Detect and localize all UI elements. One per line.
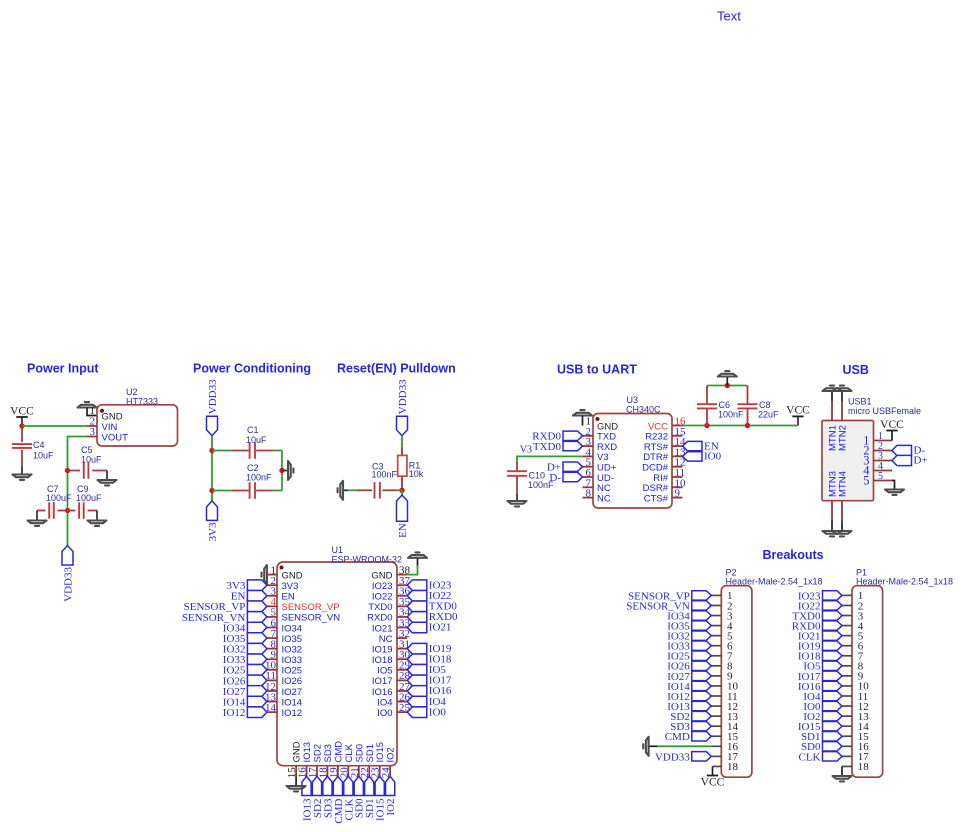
- wire P1 pin18 to ground: [841, 766, 843, 775]
- svg-text:D+: D+: [914, 455, 928, 467]
- ground below USB1 pin5: [885, 490, 904, 495]
- net flag IO26 (P2 pin 8): [692, 661, 712, 670]
- U3 pin 4 V3: [583, 455, 594, 457]
- wire MTN3 to ground: [831, 520, 833, 531]
- svg-text:GND: GND: [292, 741, 303, 762]
- U1 pin 9 IO33: [267, 658, 277, 660]
- junction right ground node: [279, 468, 284, 473]
- svg-text:100nF: 100nF: [246, 473, 272, 483]
- P1 pin 11: [842, 695, 852, 697]
- P2 pin 4: [711, 625, 721, 627]
- net flag IO13 (U1 pin 16): [302, 776, 311, 795]
- net flag IO17 (U1 pin 28): [407, 675, 427, 686]
- svg-text:100nF: 100nF: [372, 470, 398, 480]
- svg-text:VCC: VCC: [701, 776, 725, 788]
- P2 pin 3: [711, 615, 721, 617]
- wire C6/C8 top rail: [707, 385, 748, 387]
- U1 pin 29 IO5: [397, 669, 407, 671]
- U1 pin 6 IO34: [267, 627, 277, 629]
- svg-text:IO5: IO5: [377, 666, 392, 677]
- svg-text:C5: C5: [81, 445, 93, 455]
- svg-text:USB: USB: [843, 363, 869, 377]
- U1 pin 2 3V3: [267, 584, 277, 586]
- net flag SENSOR_VN (P2 pin 2): [692, 601, 712, 610]
- U1 pin 7 IO35: [267, 637, 277, 639]
- P1 pin 12: [842, 705, 852, 707]
- svg-text:C1: C1: [247, 425, 259, 435]
- wire VDD33 to R1: [401, 436, 403, 447]
- U1 pin 12 IO27: [267, 690, 277, 692]
- net flag RXD0 (P1 pin 4): [823, 621, 843, 630]
- U1 pin 3 EN: [267, 595, 277, 597]
- svg-text:VDD33: VDD33: [207, 379, 219, 414]
- svg-text:IO21: IO21: [372, 623, 393, 634]
- net flag IO4 (P1 pin 11): [823, 691, 843, 700]
- net flag IO19 (P1 pin 6): [823, 641, 843, 650]
- wire MTN4 to ground: [841, 520, 843, 531]
- ground below MTN4: [833, 531, 852, 536]
- U1 pin 26 IO4: [397, 701, 407, 703]
- net flag D+ (U3 UD+): [563, 462, 583, 471]
- U3 pin 12 DCD#: [672, 466, 683, 468]
- svg-text:IO0: IO0: [429, 706, 447, 718]
- ground above U3 pin 1: [573, 410, 592, 415]
- svg-text:RXD0: RXD0: [367, 613, 392, 624]
- P2 pin 13: [711, 715, 721, 717]
- U3 pin 5 UD+: [583, 466, 594, 468]
- USB1 pin 3: [874, 460, 893, 462]
- svg-text:IO13: IO13: [302, 742, 313, 763]
- net flag IO15 (U1 pin 23): [375, 776, 384, 795]
- svg-text:IO0: IO0: [377, 708, 392, 719]
- ground above U1 pin 38: [408, 552, 427, 557]
- net flag D+ (USB pin3): [892, 455, 912, 465]
- svg-text:CMD: CMD: [665, 731, 690, 743]
- U1 pin 25 IO0: [397, 711, 407, 713]
- svg-text:Text: Text: [717, 9, 741, 24]
- net flag IO4 (U1 pin 26): [407, 696, 427, 707]
- net flag IO12 (P2 pin 11): [692, 691, 712, 700]
- capacitor C2 100nF: [212, 490, 232, 492]
- ground below C7: [28, 521, 47, 526]
- wire U1 pin15 GND to ground: [295, 776, 297, 786]
- U1 pin 10 IO25: [267, 669, 277, 671]
- U3 pin 15 R232: [672, 435, 683, 437]
- svg-text:CTS#: CTS#: [644, 493, 669, 504]
- svg-text:GND: GND: [282, 570, 303, 581]
- ground left of C3: [338, 481, 343, 500]
- svg-text:C4: C4: [33, 440, 45, 450]
- svg-text:IO21: IO21: [429, 622, 452, 634]
- P1 pin 6: [842, 645, 852, 647]
- junction R1/C3/EN: [399, 488, 404, 493]
- P2 pin 18: [713, 765, 722, 767]
- svg-text:VCC: VCC: [10, 405, 34, 417]
- net flag 3V3: [207, 501, 218, 521]
- net flag CMD (U1 pin 19): [333, 776, 342, 795]
- P1 pin 4: [842, 625, 852, 627]
- svg-text:SD1: SD1: [365, 744, 376, 762]
- svg-text:5: 5: [863, 474, 869, 488]
- svg-text:IO26: IO26: [282, 676, 303, 687]
- svg-text:IO25: IO25: [282, 666, 303, 677]
- wire MTN2 to ground: [841, 391, 843, 401]
- svg-text:IO17: IO17: [372, 676, 393, 687]
- svg-text:IO0: IO0: [704, 451, 722, 463]
- net flag IO0 (P1 pin 12): [823, 701, 843, 710]
- capacitor C8 22uF: [747, 386, 749, 405]
- capacitor C9 100uF: [68, 510, 76, 512]
- ground left of U1 pin 1: [262, 565, 267, 584]
- ground above U2 pin 1: [78, 402, 97, 407]
- svg-text:SENSOR_VP: SENSOR_VP: [282, 602, 340, 613]
- net flag IO32 (P2 pin 5): [692, 631, 712, 640]
- junction ground/top rail: [725, 383, 730, 388]
- P1 pin 13: [842, 715, 852, 717]
- net flag IO2 (U1 pin 24): [386, 776, 395, 795]
- wire VDD33 down to C2: [211, 436, 213, 501]
- U1 pin 14 IO12: [267, 711, 277, 713]
- P1 pin 7: [842, 655, 852, 657]
- net flag IO16 (U1 pin 27): [407, 686, 427, 697]
- ground above MTN2: [833, 386, 852, 391]
- U1 pin 22 SD1: [368, 766, 370, 777]
- svg-text:Power Input: Power Input: [27, 362, 99, 376]
- wire MTN1 to ground: [831, 391, 833, 401]
- svg-text:TXD0: TXD0: [533, 441, 562, 453]
- svg-text:C6: C6: [719, 400, 731, 410]
- P2 pin 17: [711, 755, 721, 757]
- P1 pin 14: [842, 725, 852, 727]
- U3 pin 13 DTR#: [672, 455, 683, 457]
- junction C6 bottom: [704, 423, 709, 428]
- net flag IO33 (U1 pin 9): [247, 654, 267, 665]
- wire VCC to U2 VIN: [22, 425, 87, 427]
- U1 pin 28 IO17: [397, 679, 407, 681]
- svg-text:IO14: IO14: [282, 697, 303, 708]
- P2 pin 2: [711, 604, 721, 606]
- svg-text:USB1: USB1: [848, 397, 872, 407]
- net label VCC (power input): [16, 416, 27, 418]
- svg-text:IO4: IO4: [377, 697, 392, 708]
- svg-text:5: 5: [878, 471, 883, 482]
- svg-text:3: 3: [90, 426, 96, 438]
- svg-text:IO19: IO19: [372, 644, 393, 655]
- U1 pin 35 TXD0: [397, 605, 407, 607]
- U3 pin 2 TXD: [583, 435, 594, 437]
- P2 pin 7: [711, 655, 721, 657]
- capacitor C5 10uF: [68, 470, 81, 472]
- U1 pin 38 GND: [397, 574, 407, 576]
- net flag SD1 (P1 pin 15): [823, 732, 843, 741]
- USB1 pin MTN3: [831, 501, 833, 521]
- svg-text:22uF: 22uF: [758, 409, 779, 419]
- net flag SENSOR_VN (U1 pin 5): [247, 612, 267, 623]
- svg-text:IO12: IO12: [282, 708, 303, 719]
- U1 pin 16 IO13: [306, 766, 308, 777]
- net flag IO22 (P1 pin 2): [823, 601, 843, 610]
- net flag IO5 (U1 pin 29): [407, 665, 427, 676]
- net flag IO25 (P2 pin 7): [692, 651, 712, 660]
- svg-text:CH340C: CH340C: [626, 404, 661, 414]
- svg-text:IO2: IO2: [385, 799, 397, 816]
- net flag IO2 (P1 pin 13): [823, 711, 843, 720]
- svg-text:GND: GND: [102, 412, 123, 423]
- U1 pin 11 IO26: [267, 679, 277, 681]
- net flag CMD (P2 pin 15): [692, 732, 712, 741]
- U1 pin 37 IO23: [397, 584, 407, 586]
- USB1 pin 5: [874, 480, 893, 482]
- svg-text:IO33: IO33: [282, 655, 303, 666]
- capacitor C7 100uF: [58, 510, 68, 512]
- capacitor C10 100nF: [516, 462, 518, 471]
- U3 pin 16 VCC: [672, 425, 683, 427]
- U1 pin 8 IO32: [267, 648, 277, 650]
- wire top rail to ground: [726, 377, 728, 386]
- ground below C5: [98, 480, 117, 485]
- net flag IO33 (P2 pin 6): [692, 641, 712, 650]
- ground (power conditioning): [288, 461, 293, 480]
- P1 pin 2: [842, 604, 852, 606]
- net flag IO12 (U1 pin 14): [247, 707, 267, 718]
- P1 pin 1: [842, 594, 852, 596]
- junction VCC/C4: [19, 423, 24, 428]
- P1 pin 10: [842, 685, 852, 687]
- net flag IO35 (P2 pin 4): [692, 621, 712, 630]
- svg-text:3V3: 3V3: [207, 522, 219, 541]
- net flag IO14 (U1 pin 13): [247, 696, 267, 707]
- net flag 3V3 (U1 pin 2): [247, 580, 267, 591]
- P2 pin 12: [711, 705, 721, 707]
- svg-text:VDD33: VDD33: [62, 567, 74, 602]
- USB1 pin 4: [874, 470, 893, 472]
- connector USB1 micro USBFemale body: [822, 421, 874, 501]
- svg-text:IO2: IO2: [386, 747, 397, 762]
- U1 pin 36 IO22: [397, 595, 407, 597]
- svg-text:IO32: IO32: [282, 644, 303, 655]
- net flag VDD33 (power conditioning): [207, 416, 218, 436]
- U1 pin 32 NC: [397, 637, 407, 639]
- net flag SD3 (U1 pin 18): [323, 776, 332, 795]
- P2 pin 11: [711, 695, 721, 697]
- svg-text:IO27: IO27: [282, 687, 303, 698]
- P2 pin 9: [711, 675, 721, 677]
- svg-text:IO12: IO12: [223, 707, 246, 719]
- svg-text:IO15: IO15: [375, 742, 386, 763]
- net flag IO32 (U1 pin 8): [247, 643, 267, 654]
- net flag SD1 (U1 pin 22): [365, 776, 374, 795]
- P2 pin 15: [711, 735, 721, 737]
- P2 pin 14: [711, 725, 721, 727]
- net flag VDD33 (P2 pin17): [692, 752, 712, 761]
- svg-text:MTN4: MTN4: [838, 471, 849, 497]
- U1 pin 30 IO18: [397, 658, 407, 660]
- svg-text:8: 8: [586, 488, 592, 500]
- U1 pin 4 SENSOR_VP: [267, 605, 277, 607]
- net flag IO23 (U1 pin 37): [407, 580, 427, 591]
- net flag IO21 (U1 pin 33): [407, 622, 427, 633]
- wire right side of C1/C2: [281, 451, 283, 491]
- ground below MTN3: [823, 531, 842, 536]
- svg-text:VDD33: VDD33: [655, 751, 690, 763]
- svg-text:100uF: 100uF: [46, 493, 72, 503]
- svg-text:C10: C10: [529, 471, 546, 481]
- resistor R1 10k: [401, 447, 403, 455]
- svg-text:ESP-WROOM-32: ESP-WROOM-32: [332, 555, 403, 565]
- svg-text:C8: C8: [759, 400, 771, 410]
- wire USB1 pin5 to ground: [892, 481, 895, 490]
- svg-text:SD2: SD2: [313, 744, 324, 762]
- wire U3 pin1 GND to ground: [582, 416, 584, 426]
- svg-text:18: 18: [858, 761, 870, 773]
- net flag RXD0 (U1 pin 34): [407, 612, 427, 623]
- svg-text:IO35: IO35: [282, 634, 303, 645]
- svg-text:10uF: 10uF: [33, 451, 54, 461]
- U3 pin 7 NC: [583, 486, 594, 488]
- wire U3 VCC rail: [683, 425, 798, 427]
- junction VOUT/C5: [65, 468, 70, 473]
- net flag SENSOR_VP (U1 pin 4): [247, 601, 267, 612]
- svg-text:EN: EN: [282, 592, 295, 603]
- svg-text:CLK: CLK: [799, 751, 821, 763]
- svg-text:Reset(EN) Pulldown: Reset(EN) Pulldown: [337, 362, 456, 376]
- U2 pin 2 VIN: [87, 425, 97, 427]
- svg-text:micro USBFemale: micro USBFemale: [848, 406, 921, 416]
- P2 pin 10: [711, 685, 721, 687]
- svg-text:EN: EN: [397, 523, 409, 538]
- U3 pin 10 DSR#: [672, 486, 683, 488]
- capacitor C6 100nF: [706, 386, 708, 405]
- ground above MTN1: [823, 386, 842, 391]
- net flag VDD33 (reset pulldown): [397, 416, 408, 436]
- svg-text:VIN: VIN: [102, 422, 118, 433]
- net flag IO0 (U3 DTR#): [683, 452, 703, 461]
- U3 pin 14 RTS#: [672, 445, 683, 447]
- net flag IO0 (U1 pin 25): [407, 707, 427, 718]
- U1 pin 18 SD3: [326, 766, 328, 777]
- U1 pin 15 GND: [295, 766, 297, 777]
- svg-text:IO23: IO23: [372, 581, 393, 592]
- svg-text:D-: D-: [549, 472, 561, 484]
- svg-text:18: 18: [727, 761, 739, 773]
- ground below C10: [508, 501, 527, 506]
- svg-text:MTN2: MTN2: [838, 425, 849, 451]
- wire to ground (power conditioning): [282, 470, 288, 472]
- P1 pin 15: [842, 735, 852, 737]
- P2 pin 1: [711, 594, 721, 596]
- net flag EN (pulldown): [397, 495, 408, 521]
- U1 pin 33 IO21: [397, 627, 407, 629]
- net flag TXD0 (U3 RXD): [563, 441, 583, 450]
- svg-text:IO16: IO16: [372, 687, 393, 698]
- P1 pin 8: [842, 665, 852, 667]
- U3 pin 8 NC: [583, 497, 594, 499]
- wire U2 pin1 GND to ground: [87, 408, 97, 416]
- net label VCC (USB): [886, 430, 897, 432]
- U3 pin 6 UD-: [583, 476, 594, 478]
- U3 pin 9 CTS#: [672, 497, 683, 499]
- capacitor C4 10uF: [21, 426, 23, 442]
- wire USB1 pin1 to VCC: [891, 431, 893, 441]
- svg-text:IO34: IO34: [282, 623, 303, 634]
- net label VCC (P2): [707, 775, 718, 777]
- svg-text:10uF: 10uF: [81, 455, 102, 465]
- P2 pin 8: [711, 665, 721, 667]
- net flag IO27 (P2 pin 9): [692, 671, 712, 680]
- wire P2 pin16 to ground: [657, 745, 711, 747]
- net label VCC (UART): [792, 415, 803, 417]
- U1 pin 31 IO19: [397, 648, 407, 650]
- P2 pin 5: [711, 635, 721, 637]
- net flag VDD33 (power input output): [62, 546, 73, 566]
- net flag IO26 (U1 pin 11): [247, 675, 267, 686]
- svg-text:Power Conditioning: Power Conditioning: [193, 362, 311, 376]
- IC U1 ESP-WROOM-32 body: [277, 562, 397, 766]
- svg-text:9: 9: [675, 488, 681, 500]
- P1 pin 16: [842, 745, 852, 747]
- net flag IO19 (U1 pin 31): [407, 643, 427, 654]
- svg-text:SD0: SD0: [354, 744, 365, 762]
- U1 pin 24 IO2: [389, 766, 391, 777]
- wire U2 VOUT to VDD33: [68, 437, 88, 546]
- capacitor C3 100nF: [398, 489, 402, 491]
- ground above C6/C8: [718, 371, 737, 376]
- svg-text:CLK: CLK: [344, 743, 355, 762]
- svg-text:10k: 10k: [409, 469, 424, 479]
- net flag IO18 (U1 pin 30): [407, 654, 427, 665]
- wire U1 pin38 GND to ground: [407, 566, 417, 575]
- net flag SD0 (P1 pin 16): [823, 742, 843, 751]
- svg-text:IO22: IO22: [372, 592, 393, 603]
- net flag IO34 (P2 pin 3): [692, 611, 712, 620]
- P1 pin 17: [842, 755, 852, 757]
- net flag IO34 (U1 pin 6): [247, 622, 267, 633]
- net flag IO18 (P1 pin 7): [823, 651, 843, 660]
- P2 pin 6: [711, 645, 721, 647]
- net flag SD2 (P2 pin 13): [692, 711, 712, 720]
- net flag D- (U3 UD-): [563, 472, 583, 481]
- net flag IO14 (P2 pin 10): [692, 681, 712, 690]
- USB1 pin 2: [874, 450, 893, 452]
- net flag SD2 (U1 pin 17): [312, 776, 321, 795]
- P1 pin 3: [842, 615, 852, 617]
- svg-text:IO18: IO18: [372, 655, 393, 666]
- P1 pin 18: [842, 765, 852, 767]
- op-amp U2 HT7333 regulator body: [97, 405, 178, 446]
- svg-text:VCC: VCC: [880, 419, 904, 431]
- svg-text:100nF: 100nF: [718, 409, 744, 419]
- U3 pin 11 RI#: [672, 476, 683, 478]
- svg-text:SD3: SD3: [323, 744, 334, 762]
- ground below U1 pin 15: [287, 786, 306, 791]
- junction VDD33/C1: [209, 448, 214, 453]
- net flag RXD0 (U3 TXD): [563, 431, 583, 440]
- net flag IO13 (P2 pin 12): [692, 701, 712, 710]
- U1 pin 1 GND: [267, 574, 277, 576]
- net flag IO25 (U1 pin 10): [247, 665, 267, 676]
- ground below C9: [88, 521, 107, 526]
- net flag IO35 (U1 pin 7): [247, 633, 267, 644]
- svg-text:10uF: 10uF: [246, 435, 267, 445]
- svg-text:VCC: VCC: [786, 405, 810, 417]
- svg-text:U1: U1: [332, 545, 344, 555]
- U1 pin 13 IO14: [267, 701, 277, 703]
- wire U3 V3 to C10: [517, 456, 583, 462]
- svg-text:CMD: CMD: [333, 741, 344, 763]
- connector P1 Header-Male-2.54_1x18 body: [852, 586, 883, 778]
- U1 pin 23 IO15: [379, 766, 381, 777]
- svg-text:V3: V3: [520, 444, 532, 455]
